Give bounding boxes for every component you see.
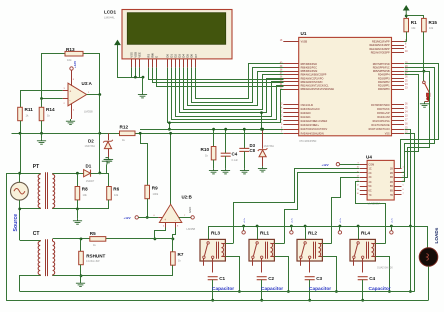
wire U4 1C to RL3 coil	[234, 169, 360, 244]
svg-text:1N4007: 1N4007	[86, 180, 95, 183]
svg-text:C4: C4	[232, 151, 238, 156]
svg-text:RD7/SPP7/P1D: RD7/SPP7/P1D	[373, 63, 390, 66]
svg-text:Capacitor: Capacitor	[369, 286, 391, 292]
wire E row to U1	[157, 68, 284, 87]
svg-text:5B: 5B	[390, 185, 393, 188]
wire RS row to U1	[149, 68, 284, 80]
resistor R8	[77, 173, 79, 186]
svg-text:R1: R1	[411, 20, 417, 25]
capacitor C1	[208, 277, 218, 280]
wire U2B pin to CT row left	[155, 228, 166, 239]
svg-text:COM: COM	[369, 164, 375, 167]
wire D1 cathode node	[91, 174, 109, 187]
wire U4 2C to RL1 coil	[285, 173, 360, 244]
diode D1	[53, 173, 84, 175]
svg-text:LOADs: LOADs	[434, 227, 439, 243]
U4 right pins 1B-7B	[394, 168, 401, 170]
svg-text:RB1/AN10/INT1/SCK/SCL: RB1/AN10/INT1/SCK/SCL	[301, 85, 330, 88]
svg-text:D5: D5	[186, 54, 190, 58]
wire non-inverting input	[20, 90, 63, 92]
wire RL2 coil bottom lead to bus	[323, 257, 337, 292]
wire D0 column drop to analog rail	[169, 123, 171, 129]
svg-text:1N4733A: 1N4733A	[85, 145, 96, 148]
svg-text:PIC18F4550: PIC18F4550	[300, 139, 317, 143]
wire upper analog rail	[140, 129, 283, 131]
resistor R5	[90, 237, 106, 242]
svg-text:RL4: RL4	[361, 230, 370, 236]
wire RD5 route to U4 3B	[402, 72, 430, 178]
svg-text:C3: C3	[316, 276, 322, 281]
junction rail nodes	[19, 132, 22, 135]
svg-text:RL3: RL3	[211, 230, 220, 236]
microcontroller U1 PIC18F4550	[299, 37, 392, 135]
resistor RSHUNT	[80, 239, 82, 251]
push switch to ground	[423, 81, 426, 84]
U4 COM pin	[360, 164, 367, 166]
svg-text:RA5/AN4/SS/HLVDIN: RA5/AN4/SS/HLVDIN	[301, 132, 324, 135]
op-amp U2:B	[159, 204, 181, 222]
wire CT secondary bottom	[53, 275, 173, 277]
svg-text:1C: 1C	[369, 167, 372, 170]
svg-text:R15: R15	[429, 20, 438, 25]
op-amp U3:A	[68, 83, 87, 106]
svg-text:RB2/AN8/INT2/VMO: RB2/AN8/INT2/VMO	[301, 81, 323, 84]
svg-text:RC0/T1OSO/T1CKI: RC0/T1OSO/T1CKI	[369, 128, 390, 131]
wire RL4 coil bottom lead to bus	[376, 257, 390, 292]
wire U4 4C to RL4 coil	[356, 182, 386, 244]
relay RL2	[297, 239, 322, 261]
load lamp LOADs	[419, 248, 438, 267]
svg-text:RE0/AN5/CK1SPP: RE0/AN5/CK1SPP	[370, 44, 390, 47]
resistor R11	[20, 91, 22, 108]
svg-text:Source: Source	[13, 214, 19, 232]
terminal +12V left of U2B	[135, 216, 138, 219]
svg-text:U2:B: U2:B	[182, 195, 192, 200]
svg-text:RA3/AN3/VREF+: RA3/AN3/VREF+	[301, 124, 320, 127]
svg-text:VUSB: VUSB	[301, 41, 308, 44]
svg-text:RD5/SPP5/P1B: RD5/SPP5/P1B	[373, 70, 390, 73]
wire U2B pin to CT row right	[173, 228, 176, 239]
junction LCD supply	[134, 76, 137, 79]
capacitor C4 (filter)	[225, 129, 227, 153]
svg-text:100k: 100k	[153, 192, 159, 196]
resistor R9	[145, 185, 150, 198]
svg-text:7C: 7C	[369, 194, 372, 197]
wire rail to U2B top pin	[170, 133, 172, 204]
wire RW row to U1	[153, 68, 284, 83]
U2B bottom pins	[165, 223, 167, 228]
power +12V arrow top right	[404, 6, 409, 15]
svg-text:RE2/AN7/OESPP: RE2/AN7/OESPP	[371, 51, 390, 54]
svg-text:OUAZ-SH-12K: OUAZ-SH-12K	[377, 267, 393, 270]
relay rail +12V terminals	[242, 225, 245, 228]
wire VSS pin down	[131, 67, 133, 77]
svg-text:0.1uF: 0.1uF	[232, 159, 239, 162]
svg-text:R6: R6	[113, 187, 119, 192]
svg-text:+: +	[164, 218, 166, 222]
ground under LCD	[142, 77, 144, 92]
svg-text:R13: R13	[66, 47, 75, 52]
ground above D1 cathode node	[102, 158, 112, 165]
svg-text:Capacitor: Capacitor	[261, 286, 283, 292]
svg-text:RB0/AN12/INT0/FLT0/SDI/SDA: RB0/AN12/INT0/FLT0/SDI/SDA	[301, 88, 335, 91]
wire rail to U2B feed via R9	[141, 134, 148, 186]
wire RC0 route to bottom bus	[405, 134, 415, 292]
svg-text:7B: 7B	[390, 194, 393, 197]
wire left return branch	[7, 174, 20, 301]
svg-text:RC4/D-/VM: RC4/D-/VM	[377, 116, 389, 119]
op-amp supply terminal +12V	[70, 67, 73, 70]
capacitor C3	[305, 277, 315, 280]
svg-text:D1: D1	[86, 163, 92, 168]
svg-text:LCD1: LCD1	[104, 10, 116, 15]
svg-text:10k: 10k	[429, 26, 434, 30]
svg-text:U1: U1	[301, 31, 307, 36]
svg-text:2C: 2C	[369, 172, 372, 175]
zener diode D2	[108, 133, 110, 140]
svg-text:D7: D7	[194, 54, 198, 58]
svg-text:RL1: RL1	[260, 230, 269, 236]
wire U2B right output to GND terminal	[179, 217, 191, 219]
wire RD4 route to U4 4B	[402, 75, 419, 182]
svg-text:VSS: VSS	[385, 132, 390, 135]
svg-text:+12V: +12V	[322, 163, 329, 167]
terminal +12V for U4 COM	[336, 163, 339, 166]
svg-text:RL2: RL2	[308, 230, 317, 236]
svg-text:D2: D2	[88, 139, 94, 144]
svg-text:R7: R7	[178, 252, 184, 257]
svg-text:3C: 3C	[369, 176, 372, 179]
wire RD6 route to U4 2B	[402, 68, 435, 173]
wire +12V relay rail	[209, 227, 428, 248]
svg-text:LM358: LM358	[187, 227, 196, 231]
svg-text:RW: RW	[151, 53, 155, 58]
wire PT primary top	[20, 173, 41, 175]
svg-text:CT: CT	[33, 231, 40, 237]
driver U4 ULN2003A	[367, 160, 394, 200]
AC source	[11, 182, 29, 200]
wire RL3 coil top lead	[225, 243, 233, 245]
svg-text:C2: C2	[268, 276, 274, 281]
svg-text:RD3/SPP3: RD3/SPP3	[378, 77, 390, 80]
wire CT secondary top row	[53, 238, 155, 240]
svg-text:RC1/T1OSI/UOE: RC1/T1OSI/UOE	[371, 124, 390, 127]
relay RL1	[249, 239, 274, 261]
svg-text:RD2/SPP2: RD2/SPP2	[378, 81, 390, 84]
wire PT secondary bottom	[53, 208, 109, 210]
svg-text:D0: D0	[165, 54, 169, 58]
wire CT row to R7	[155, 238, 173, 240]
svg-text:6C: 6C	[369, 190, 372, 193]
svg-text:C4: C4	[369, 276, 375, 281]
svg-text:C8: C8	[250, 148, 256, 153]
relay RL3	[200, 239, 225, 261]
svg-text:RC5/D+/VP: RC5/D+/VP	[377, 112, 390, 115]
resistor R15	[422, 18, 427, 31]
capacitor C2	[257, 277, 267, 280]
resistor R7	[172, 239, 174, 252]
svg-text:RD6/SPP6/P1C: RD6/SPP6/P1C	[373, 67, 390, 70]
svg-text:RA4/T0CKI/C1OUT/RCV: RA4/T0CKI/C1OUT/RCV	[301, 128, 328, 131]
wire RD7 route to U4 1B	[401, 64, 439, 169]
ground mid-left on rail	[41, 133, 43, 138]
svg-text:U3:A: U3:A	[82, 81, 93, 86]
svg-text:RB3/AN9/CCP2/VPO: RB3/AN9/CCP2/VPO	[301, 77, 324, 80]
svg-text:VEE: VEE	[138, 52, 142, 58]
LCD display LCD1	[122, 10, 232, 59]
svg-text:RA0/AN0: RA0/AN0	[301, 112, 312, 115]
svg-text:RA1/AN1: RA1/AN1	[301, 116, 312, 119]
svg-text:RB6/KBI2/PGC: RB6/KBI2/PGC	[301, 67, 318, 70]
svg-text:10k: 10k	[67, 58, 72, 62]
power +5V arrow left of LCD	[115, 41, 120, 50]
svg-text:R10: R10	[201, 147, 210, 152]
svg-text:VDD: VDD	[134, 52, 138, 58]
wire source top	[19, 173, 21, 182]
wire U4 3C to RL2 coil	[332, 178, 360, 244]
wire RL3 coil bottom lead to bus	[226, 257, 240, 292]
ground RSHUNT	[80, 276, 82, 281]
svg-text:GND: GND	[188, 207, 192, 213]
svg-text:RB5/KBI1/PGM: RB5/KBI1/PGM	[301, 70, 318, 73]
svg-text:LM358: LM358	[84, 110, 93, 114]
svg-text:PT: PT	[33, 164, 39, 170]
svg-text:OSC1/CLKI: OSC1/CLKI	[301, 104, 314, 107]
resistor R13	[42, 54, 65, 99]
svg-text:4C: 4C	[369, 181, 372, 184]
svg-text:10k: 10k	[114, 193, 119, 197]
svg-text:LM044L: LM044L	[104, 16, 115, 20]
svg-text:U4: U4	[366, 154, 372, 159]
svg-text:RE3/MCLR/VPP: RE3/MCLR/VPP	[372, 41, 390, 44]
svg-text:Capacitor: Capacitor	[309, 286, 331, 292]
svg-text:RE1/AN6/CK2SPP: RE1/AN6/CK2SPP	[370, 48, 390, 51]
svg-text:R11: R11	[25, 107, 34, 112]
svg-text:+12V: +12V	[124, 216, 131, 220]
wire RC route to relay supply rail	[405, 130, 411, 292]
wire op-amp output column down to rail and diode node	[99, 95, 101, 173]
wire CT primary top	[20, 240, 41, 242]
svg-text:1B: 1B	[390, 167, 393, 170]
svg-text:5C: 5C	[369, 185, 372, 188]
svg-text:R9: R9	[152, 185, 158, 190]
svg-text:R14: R14	[46, 107, 55, 112]
svg-text:RD1/SPP1: RD1/SPP1	[378, 85, 390, 88]
resistor R12 in series on rail	[120, 131, 136, 136]
wire data staircase D7..D0 to U1 RB pins	[196, 64, 284, 99]
wire VDD pin down	[135, 67, 137, 77]
LCD pin stubs	[131, 59, 133, 68]
wire CT primary bottom to bus	[20, 276, 41, 292]
svg-text:E: E	[155, 56, 159, 58]
wire U2B left input	[138, 217, 158, 219]
svg-text:RA6/OSC2/CLKO: RA6/OSC2/CLKO	[301, 108, 320, 111]
svg-text:C1: C1	[219, 276, 225, 281]
U4 left pins 1C-7C	[360, 168, 367, 170]
wire PT primary bottom	[20, 208, 41, 210]
wire source bottom	[19, 200, 21, 240]
capacitor C4	[358, 277, 368, 280]
wire mid drop to analog rail	[261, 113, 263, 130]
junction R15 with RD5 row	[423, 70, 426, 73]
junction feedback node	[40, 97, 43, 100]
svg-text:RC6/TX/CK: RC6/TX/CK	[377, 108, 390, 111]
wire arrow node	[406, 15, 408, 19]
wire op-amp output	[87, 94, 100, 96]
wire lower analog rail	[12, 133, 120, 135]
U1 right pin stubs, numbers and names	[392, 41, 405, 43]
svg-text:RC7/RX/DT/SDO: RC7/RX/DT/SDO	[371, 104, 390, 107]
svg-text:+12V: +12V	[73, 61, 77, 68]
resistor R6	[107, 187, 112, 200]
svg-text:D1: D1	[170, 54, 174, 58]
capacitor C8 (filter)	[244, 129, 246, 148]
ground PT secondary	[77, 209, 79, 219]
svg-text:4B: 4B	[390, 181, 393, 184]
wire inverting input	[42, 98, 63, 100]
svg-text:VSS: VSS	[130, 52, 134, 58]
wire lamp bottom to bus	[428, 266, 430, 300]
svg-text:+: +	[69, 90, 71, 94]
wire VEE pin down	[139, 67, 141, 77]
wire R1 to MCLR pin	[404, 41, 406, 43]
svg-text:D6: D6	[190, 54, 194, 58]
svg-text:D2: D2	[174, 54, 178, 58]
zener diode D3	[262, 129, 264, 149]
svg-text:1N4733A: 1N4733A	[264, 145, 275, 148]
svg-text:RSHUNT: RSHUNT	[86, 253, 105, 258]
svg-text:R12: R12	[120, 124, 129, 129]
svg-text:R5: R5	[90, 231, 96, 236]
wire RL1 coil top lead	[274, 243, 284, 245]
resistor R10	[213, 129, 215, 146]
wire bottom bus B	[6, 300, 428, 302]
svg-text:RD0/SPP0: RD0/SPP0	[378, 88, 390, 91]
svg-text:D3: D3	[178, 54, 182, 58]
svg-text:2B: 2B	[390, 172, 393, 175]
svg-text:10k: 10k	[83, 193, 88, 197]
resistor R1	[404, 18, 409, 31]
svg-text:RC2/CCP1/P1A: RC2/CCP1/P1A	[373, 120, 390, 123]
svg-text:10k: 10k	[411, 26, 416, 30]
wire arrow to LCD supply row	[118, 50, 143, 78]
svg-text:R8: R8	[82, 187, 88, 192]
svg-text:0.1Ohm-5W: 0.1Ohm-5W	[86, 260, 100, 263]
svg-text:RB4/AN11/KBI0/CSSPP: RB4/AN11/KBI0/CSSPP	[301, 74, 327, 77]
wire bottom bus A	[20, 291, 415, 293]
wire RL4 coil top lead	[375, 243, 385, 245]
wire RL1 coil bottom lead to bus	[275, 257, 289, 292]
ground under switch	[428, 101, 430, 102]
op-amp ground pin	[71, 104, 73, 119]
svg-text:D4: D4	[182, 54, 186, 58]
svg-text:RA2/AN2/VREF-/CVREF: RA2/AN2/VREF-/CVREF	[301, 120, 328, 123]
svg-text:Capacitor: Capacitor	[212, 286, 234, 292]
resistor R14	[41, 99, 43, 108]
svg-text:RD4/SPP4: RD4/SPP4	[378, 74, 390, 77]
svg-text:RS: RS	[147, 54, 151, 58]
svg-text:3B: 3B	[390, 176, 393, 179]
svg-text:RB7/KBI3/PGD: RB7/KBI3/PGD	[301, 63, 318, 66]
U1 left pin stubs, numbers and names	[283, 41, 298, 43]
wire source top to rail column	[20, 133, 22, 173]
svg-text:6B: 6B	[390, 190, 393, 193]
relay RL4	[350, 239, 375, 261]
wire RL2 coil top lead	[322, 243, 331, 245]
